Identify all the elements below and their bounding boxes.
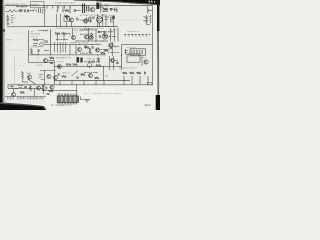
junction dots row4: [79, 44, 98, 55]
resistor R9: [30, 49, 32, 55]
wire hv riser: [100, 3, 102, 14]
resistor R11: [101, 52, 106, 54]
svg-text:C1: C1: [22, 9, 25, 11]
scan edge black band top-right: [74, 0, 160, 5]
resistor R24: [49, 90, 54, 92]
junction dots bottom: [43, 84, 77, 91]
switch S1 contacts: [32, 10, 36, 11]
transistor Q7: [109, 43, 113, 47]
label box SW1: [31, 2, 45, 8]
wire vertical v3: [97, 14, 99, 27]
wire right col drop: [111, 42, 113, 56]
capacitor C9: [45, 41, 48, 42]
capacitor C4: [111, 8, 112, 11]
wire drop to ic: [76, 85, 78, 96]
dashed row ticks: [126, 35, 147, 37]
wire rc2: [113, 56, 115, 70]
wire connector drop pair 2: [39, 8, 41, 13]
capacitor C24: [110, 48, 113, 49]
text smudge row20: [78, 19, 87, 21]
battery B1 stack: [6, 15, 9, 23]
wire q1 emitter: [71, 22, 73, 27]
output box left: [121, 44, 123, 56]
wire vertical v1b: [66, 22, 68, 27]
pilot lamp stack marks: [11, 16, 14, 23]
svg-text:C12 .02: C12 .02: [31, 36, 39, 38]
bus line mid upper: [29, 26, 119, 28]
wire rc1: [109, 56, 111, 70]
capacitor C2: [28, 9, 29, 12]
junction dots row2: [85, 26, 109, 27]
wire to regulator: [113, 10, 118, 13]
bus line row56: [54, 66, 122, 68]
svg-text:C15 25MF: C15 25MF: [30, 47, 41, 49]
capacitor C13: [58, 73, 59, 76]
capacitor C12: [92, 46, 93, 49]
connector CN1 inner hatch: [58, 96, 77, 102]
svg-text:6.3VAC 2A HV 350V: 6.3VAC 2A HV 350V: [55, 2, 75, 5]
svg-text:Q8: Q8: [37, 57, 40, 59]
capacitor C7: [77, 18, 78, 21]
capacitor C22: [50, 63, 53, 64]
resistor R16: [21, 72, 23, 79]
text smudge row39: [56, 39, 68, 41]
capacitor C18: [84, 46, 87, 47]
svg-text:15K 2W: 15K 2W: [57, 61, 64, 63]
op-amp U2 triangle: [42, 85, 47, 90]
wire harness verticals: [55, 42, 66, 53]
svg-text:GND: GND: [105, 76, 110, 78]
capacitor C16: [92, 17, 95, 18]
wire stage2 bottom: [76, 40, 108, 42]
wire vcol a: [109, 28, 111, 42]
svg-text:V1 12AX7 V2 12AU7 6V6: V1 12AX7 V2 12AU7 6V6: [80, 14, 106, 17]
bus echo line: [56, 27, 104, 29]
wire connector drop pair: [38, 8, 40, 13]
wire top joining: [76, 10, 81, 12]
junction dots row5: [59, 66, 104, 67]
transistor Q9: [57, 64, 61, 68]
text smudge top: [16, 5, 28, 7]
resistor R4: [89, 17, 91, 23]
capacitor C6: [6, 23, 9, 24]
left bar notch: [3, 29, 5, 31]
transistor Q20: [110, 58, 114, 62]
wire r7 to q3: [67, 34, 71, 36]
resistor R6: [55, 32, 60, 34]
transistor Q4: [84, 35, 88, 39]
scan edge faint line right lower: [157, 60, 159, 95]
wire r6 drop: [57, 34, 59, 42]
schematic border left: [4, 6, 6, 102]
wire drop70 a: [59, 81, 61, 85]
choke L1 winding: [86, 18, 89, 24]
capacitor C10: [100, 35, 101, 38]
wire transformer rail left: [121, 54, 123, 70]
dark component blob top: [96, 3, 99, 9]
junction dots frame line: [18, 84, 45, 85]
resistor R30: [104, 49, 108, 51]
wire drop70 d: [95, 81, 97, 85]
wire vcol c: [117, 28, 119, 42]
capacitor C23: [76, 77, 79, 78]
resistor R14: [73, 63, 78, 65]
wire drop70 b: [71, 81, 73, 85]
connector CN1 pins bottom: [58, 102, 77, 104]
lower wire mid: [44, 90, 77, 92]
page number glyphs in black band: [149, 1, 156, 3]
transistor Q18: [89, 35, 93, 39]
wire to switch: [29, 9, 35, 11]
wire dropR a: [123, 76, 125, 85]
svg-text:6L6: 6L6: [109, 59, 112, 61]
wire subblock link: [38, 40, 44, 43]
text smudge center d: [80, 33, 91, 35]
connector CN1 pins top: [58, 94, 77, 96]
resistor R27: [89, 48, 91, 53]
text smudge mid c: [80, 52, 92, 54]
wire vertical v2b: [105, 14, 107, 27]
wire cap to frame: [150, 10, 153, 12]
schematic border top: [4, 5, 152, 7]
transistor Q5: [77, 47, 81, 51]
wire long v72: [72, 28, 74, 36]
transistor Q13: [53, 75, 57, 79]
wire q2 link: [88, 21, 91, 23]
wire battery down: [8, 26, 29, 27]
wire dropR b: [131, 76, 133, 85]
wire row56 drop: [103, 67, 105, 81]
wire lower v1: [34, 89, 36, 97]
wire bias link: [23, 78, 29, 82]
wire vertical v4: [102, 14, 104, 27]
schematic border bottom: [8, 84, 153, 86]
connector J1 bumps: [43, 9, 46, 14]
text smudge mid a: [97, 49, 111, 51]
tube V2 envelope: [102, 34, 107, 39]
component blob pair a: [77, 57, 80, 63]
resistor R10: [85, 46, 90, 48]
svg-text:5: 5: [45, 95, 46, 97]
scan streak artifacts: [8, 20, 150, 90]
lower pins bus: [5, 95, 46, 97]
svg-text:TB1 TERMINAL STRIP: TB1 TERMINAL STRIP: [51, 104, 73, 107]
transistor Q12: [47, 74, 51, 78]
text smudge mid b: [108, 45, 119, 47]
svg-text:FEEDBACK 56K: FEEDBACK 56K: [56, 57, 72, 60]
svg-text:SHIELD 6.3V: SHIELD 6.3V: [127, 31, 140, 33]
resistor R25: [66, 16, 68, 21]
pin hatch row far: [40, 97, 43, 100]
output transformer T2 winding ticks: [129, 54, 139, 57]
resistor R12: [50, 57, 55, 59]
resistor R23: [29, 86, 31, 91]
wire mid drop b: [75, 45, 77, 55]
transistor Q8: [43, 58, 47, 62]
svg-text:470K: 470K: [44, 31, 49, 33]
component blob row2: [113, 16, 115, 20]
resistor R29: [20, 91, 25, 93]
wire r7 drop: [63, 34, 65, 42]
transistor Q1: [69, 18, 73, 22]
pin hatch row right: [28, 97, 39, 100]
wire left feed: [29, 62, 54, 64]
resistor R18: [81, 73, 86, 75]
component marks x104-112: [105, 17, 113, 23]
wire vcol b: [113, 28, 115, 42]
output box top: [122, 43, 153, 45]
wire vertical v2: [59, 14, 61, 27]
capacitor C19: [92, 61, 95, 62]
wire q20 link: [115, 61, 118, 62]
scan edge dark bar right upper: [157, 0, 159, 31]
svg-text:470: 470: [96, 43, 99, 45]
fuse F1: [19, 10, 23, 12]
svg-text:.1 600V: .1 600V: [36, 65, 44, 67]
capacitor C8 stack right: [145, 15, 148, 24]
output jack marks: [125, 49, 129, 55]
ground symbol bottom center: [84, 100, 90, 103]
resistor R13: [66, 63, 71, 65]
bias network marks: [39, 75, 45, 80]
wire transformer rail right: [141, 56, 143, 66]
bus line row70: [54, 80, 130, 82]
pin hatch row mid: [18, 97, 26, 100]
right col marks: [143, 17, 151, 21]
wire lower v2: [43, 85, 45, 94]
capacitor C5: [148, 9, 149, 12]
svg-text:SPKR 8Ω: SPKR 8Ω: [127, 47, 136, 49]
capacitor C3: [75, 9, 76, 12]
clean margin right of schematic: [153, 6, 157, 102]
wire left mid link: [32, 53, 39, 55]
connector CN1 body: [57, 96, 78, 102]
sub-block rail left: [28, 30, 30, 55]
svg-text:MAINS: MAINS: [32, 3, 40, 6]
svg-text:6L6: 6L6: [143, 57, 146, 59]
scan band soft under-edge: [96, 1, 160, 6]
capacitor C15: [24, 87, 27, 88]
output row rect: [130, 49, 146, 55]
transformer T1 winding: [86, 6, 89, 12]
resistor R26: [103, 31, 105, 36]
wire mid lower: [29, 54, 106, 56]
text smudge row72: [84, 72, 98, 74]
transistor Q16: [36, 86, 40, 90]
paper background: [0, 0, 160, 110]
transistor Q6: [95, 48, 99, 52]
svg-text:40: 40: [149, 19, 151, 21]
svg-text:1M .02: 1M .02: [84, 29, 90, 31]
schematic border right: [152, 6, 154, 85]
potentiometer VR1: [87, 61, 91, 68]
wire v stage2: [95, 30, 97, 42]
wire q8 out: [48, 61, 55, 85]
wire left feed drop: [28, 55, 30, 62]
wire dropR c: [139, 76, 141, 85]
svg-text:3 4 5: 3 4 5: [64, 94, 69, 96]
resistor R8: [91, 33, 93, 39]
svg-text:Mack: Mack: [145, 103, 152, 107]
svg-text:100K: 100K: [108, 15, 113, 17]
svg-text:C20 C21: C20 C21: [109, 30, 117, 32]
text smudge center c: [104, 36, 116, 38]
svg-text:100K .02: 100K .02: [62, 72, 70, 74]
resistor R22: [137, 72, 142, 74]
svg-text:P1: P1: [58, 94, 61, 96]
junction dots top: [57, 10, 71, 13]
component blob pair b: [80, 58, 82, 63]
wire drop70 e: [103, 81, 105, 85]
schematic area tint: [3, 0, 155, 104]
svg-text:16 14 12 10 8 6 4 2: 16 14 12 10 8 6 4 2: [119, 68, 137, 70]
wire drop70 c: [83, 81, 85, 85]
text smudge row56: [84, 61, 100, 63]
text smudge center b: [98, 31, 114, 33]
transistor Q15: [11, 92, 15, 96]
parts on bottom frame line left: [8, 85, 23, 89]
resistor R20: [123, 72, 128, 74]
transistor Q10: [144, 60, 148, 64]
transistor Q2: [83, 19, 87, 23]
resistor R15: [96, 64, 101, 66]
wire vertical v0: [44, 6, 46, 27]
resistor R19: [95, 77, 100, 79]
lower wire left: [8, 88, 44, 90]
scan edge black patch bottom-right: [156, 95, 160, 110]
svg-text:BIAS: BIAS: [27, 72, 32, 75]
wire q15 up: [14, 89, 19, 93]
scan noise speckle: [4, 1, 154, 103]
transformer T1 primary bars: [83, 4, 85, 14]
wire drop from bus b: [62, 6, 64, 13]
svg-text:F1 2A SW: F1 2A SW: [17, 6, 27, 9]
diagonal pointer line: [28, 79, 36, 84]
dashed shield row: [124, 33, 150, 35]
resistor R3: [65, 15, 70, 17]
scan edge gradient strip left: [3, 0, 4, 110]
clean margin below schematic: [45, 85, 155, 110]
svg-text:5Y3: 5Y3: [105, 6, 109, 8]
svg-text:V3: V3: [31, 31, 33, 33]
pin hatch row left: [8, 97, 14, 100]
rectifier D1 bridge: [90, 7, 95, 12]
capacitor C11: [37, 50, 40, 51]
terminal marks x104-118: [105, 8, 117, 12]
svg-text:PWR SUPPLY 115V: PWR SUPPLY 115V: [5, 4, 27, 6]
resistor R17: [62, 75, 67, 77]
terminal box at border right end: [147, 82, 152, 84]
svg-text:PHASE INV .05 1M: PHASE INV .05 1M: [70, 42, 88, 45]
terminal ticks on top bus: [47, 6, 70, 9]
junction dots row3: [75, 40, 103, 41]
tube V1 envelope: [97, 17, 103, 27]
output transformer T2 box: [127, 54, 140, 62]
wire drop from bus a: [56, 6, 58, 13]
svg-text:2 7: 2 7: [64, 14, 67, 16]
scan shadow bottom-left wedge: [0, 103, 47, 110]
scan edge black bar left: [0, 0, 3, 110]
svg-text:R10 470K: R10 470K: [31, 34, 41, 36]
svg-text:Fig. 2 — Amplifier schematic d: Fig. 2 — Amplifier schematic diagram: [84, 92, 122, 95]
transistor Q19: [50, 85, 54, 89]
wire input squiggle: [6, 10, 18, 13]
resistor R21: [130, 72, 135, 74]
wire right col extra: [150, 15, 152, 24]
capacitor C21: [116, 63, 119, 64]
wire drop from bus c: [69, 6, 71, 13]
wire bias rail: [44, 70, 46, 85]
bus line mid: [44, 44, 101, 46]
text smudge mid d: [108, 52, 119, 54]
wire c8 to frame: [147, 24, 151, 25]
capacitor C14: [145, 72, 146, 75]
wire center col: [88, 28, 90, 41]
scan edge dark line right fade: [157, 31, 159, 60]
resistor R1: [65, 9, 70, 11]
resistor R7: [62, 32, 67, 34]
wire dropR d: [147, 76, 149, 85]
small rect component row2: [64, 17, 70, 22]
wire bias feed: [40, 70, 56, 72]
capacitor C17: [98, 32, 101, 33]
scan shadow wedge soft edge: [0, 102, 47, 110]
transistor Q14: [88, 73, 92, 77]
capacitor C1: [25, 9, 26, 12]
faint fold line left: [14, 56, 16, 84]
sub-block rail right: [49, 29, 51, 55]
output row hatch: [132, 50, 143, 54]
wire blob drop: [113, 19, 115, 27]
resistor R2: [104, 8, 109, 10]
resistor R28: [97, 58, 99, 63]
transistor Q11: [27, 75, 31, 79]
svg-text:INPUT: INPUT: [6, 40, 13, 42]
text smudge center a: [81, 29, 98, 31]
diagonal wire up: [72, 71, 79, 77]
transistor Q3: [71, 35, 75, 39]
svg-text:220: 220: [114, 47, 117, 49]
wire small right of ic: [81, 97, 84, 100]
wire right inner drop: [147, 6, 149, 14]
wire secondary out: [100, 7, 109, 12]
capacitor C20: [47, 94, 50, 95]
wire vertical v1: [56, 14, 58, 27]
wire mid drop a: [69, 45, 71, 55]
resistor R5: [33, 39, 38, 41]
sub-block inner parts: [33, 30, 49, 50]
